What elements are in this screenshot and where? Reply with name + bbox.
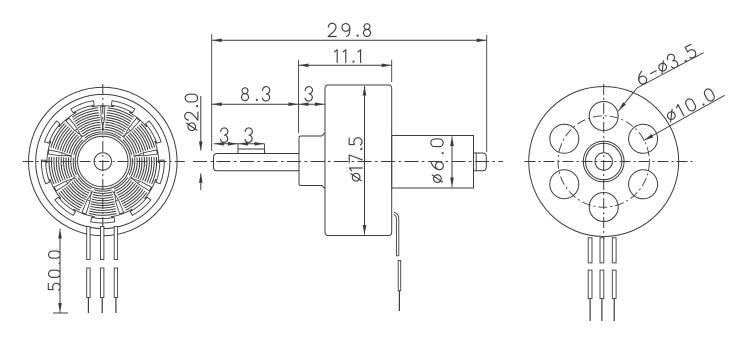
dim diameter 2.0: text [185,94,198,130]
dim 11.1: text [335,50,361,63]
dim 29.8: extension lines [212,34,487,152]
side view: nub inner step [475,153,477,171]
side view: horizontal centerline [193,161,503,163]
dim 3-3: second text 3 [245,128,252,142]
rear view: outer circle [529,87,679,237]
leader diameter10.0: arrow and line [644,95,725,140]
dim diameter 6.0: dimension line [450,136,454,188]
left view: wire length dimension line 50.0 [53,229,68,314]
side view: shaft step (3mm collar) [238,149,265,154]
leader 6-diameter3.5: arrow and line [618,53,703,111]
side view: rear boss [392,136,474,189]
dim diameter 2.0: dimension line with outside arrows [199,96,203,190]
left view: stator windings (9 coils) [49,108,157,215]
dim diameter 6.0: text [431,139,444,183]
dim 3-3 (shaft steps): extension lines [238,144,265,149]
side view: motor body [325,85,392,236]
dim diameter 17.5: text [349,138,362,181]
left view: vertical centerline [102,84,104,240]
left view: shaft hole circle [94,153,111,170]
left view: 9 stator teeth [46,105,160,218]
rear view: three lead wires [588,238,616,321]
left view: stator bore circle [75,134,130,189]
left view: rotor inner circle [36,94,170,228]
side view: motor shaft [214,154,300,171]
rear view: shaft hole [595,153,612,170]
dim diameter 17.5: dimension line [363,86,367,236]
dim 8.3: text [241,87,269,101]
side view: lead wire upper segment [394,212,399,256]
dim 29.8: dimension line [212,39,487,43]
side view: shaft end nub [474,153,487,171]
side view: lead wire lower segment [398,261,401,312]
left view: rotor outer circle [29,87,178,236]
dim 11.1: dimension line [299,64,392,68]
side view: front flange [299,133,325,189]
dim 11.1: extension lines [299,60,392,133]
dim 29.8: text [328,23,370,36]
left view: dimension text 50.0 [48,251,60,290]
leader diameter10.0: text [665,88,716,123]
left view: three lead wires [87,227,118,314]
dim 3 (flange): dimension line [299,102,325,106]
left view: hub circle [78,136,128,186]
rear view: horizontal centerline [525,161,694,163]
dim 3-3: first text 3 [221,128,228,142]
rear view: hub inner ring [586,143,622,179]
dim 3 (flange): text [305,87,312,101]
left view: stator slot ring segments [41,101,164,223]
rear view: hub outer circle [583,141,624,182]
dim 3-3: dimension line [214,142,265,146]
rear view: bolt circle (dashed) [558,116,649,207]
rear view: vertical centerline [603,84,605,240]
rear view: six 3.5mm vent holes [550,102,658,222]
leader 6-diameter3.5: text [635,43,698,86]
dim 8.3: dimension line [212,102,299,106]
left view: horizontal centerline [23,161,185,163]
